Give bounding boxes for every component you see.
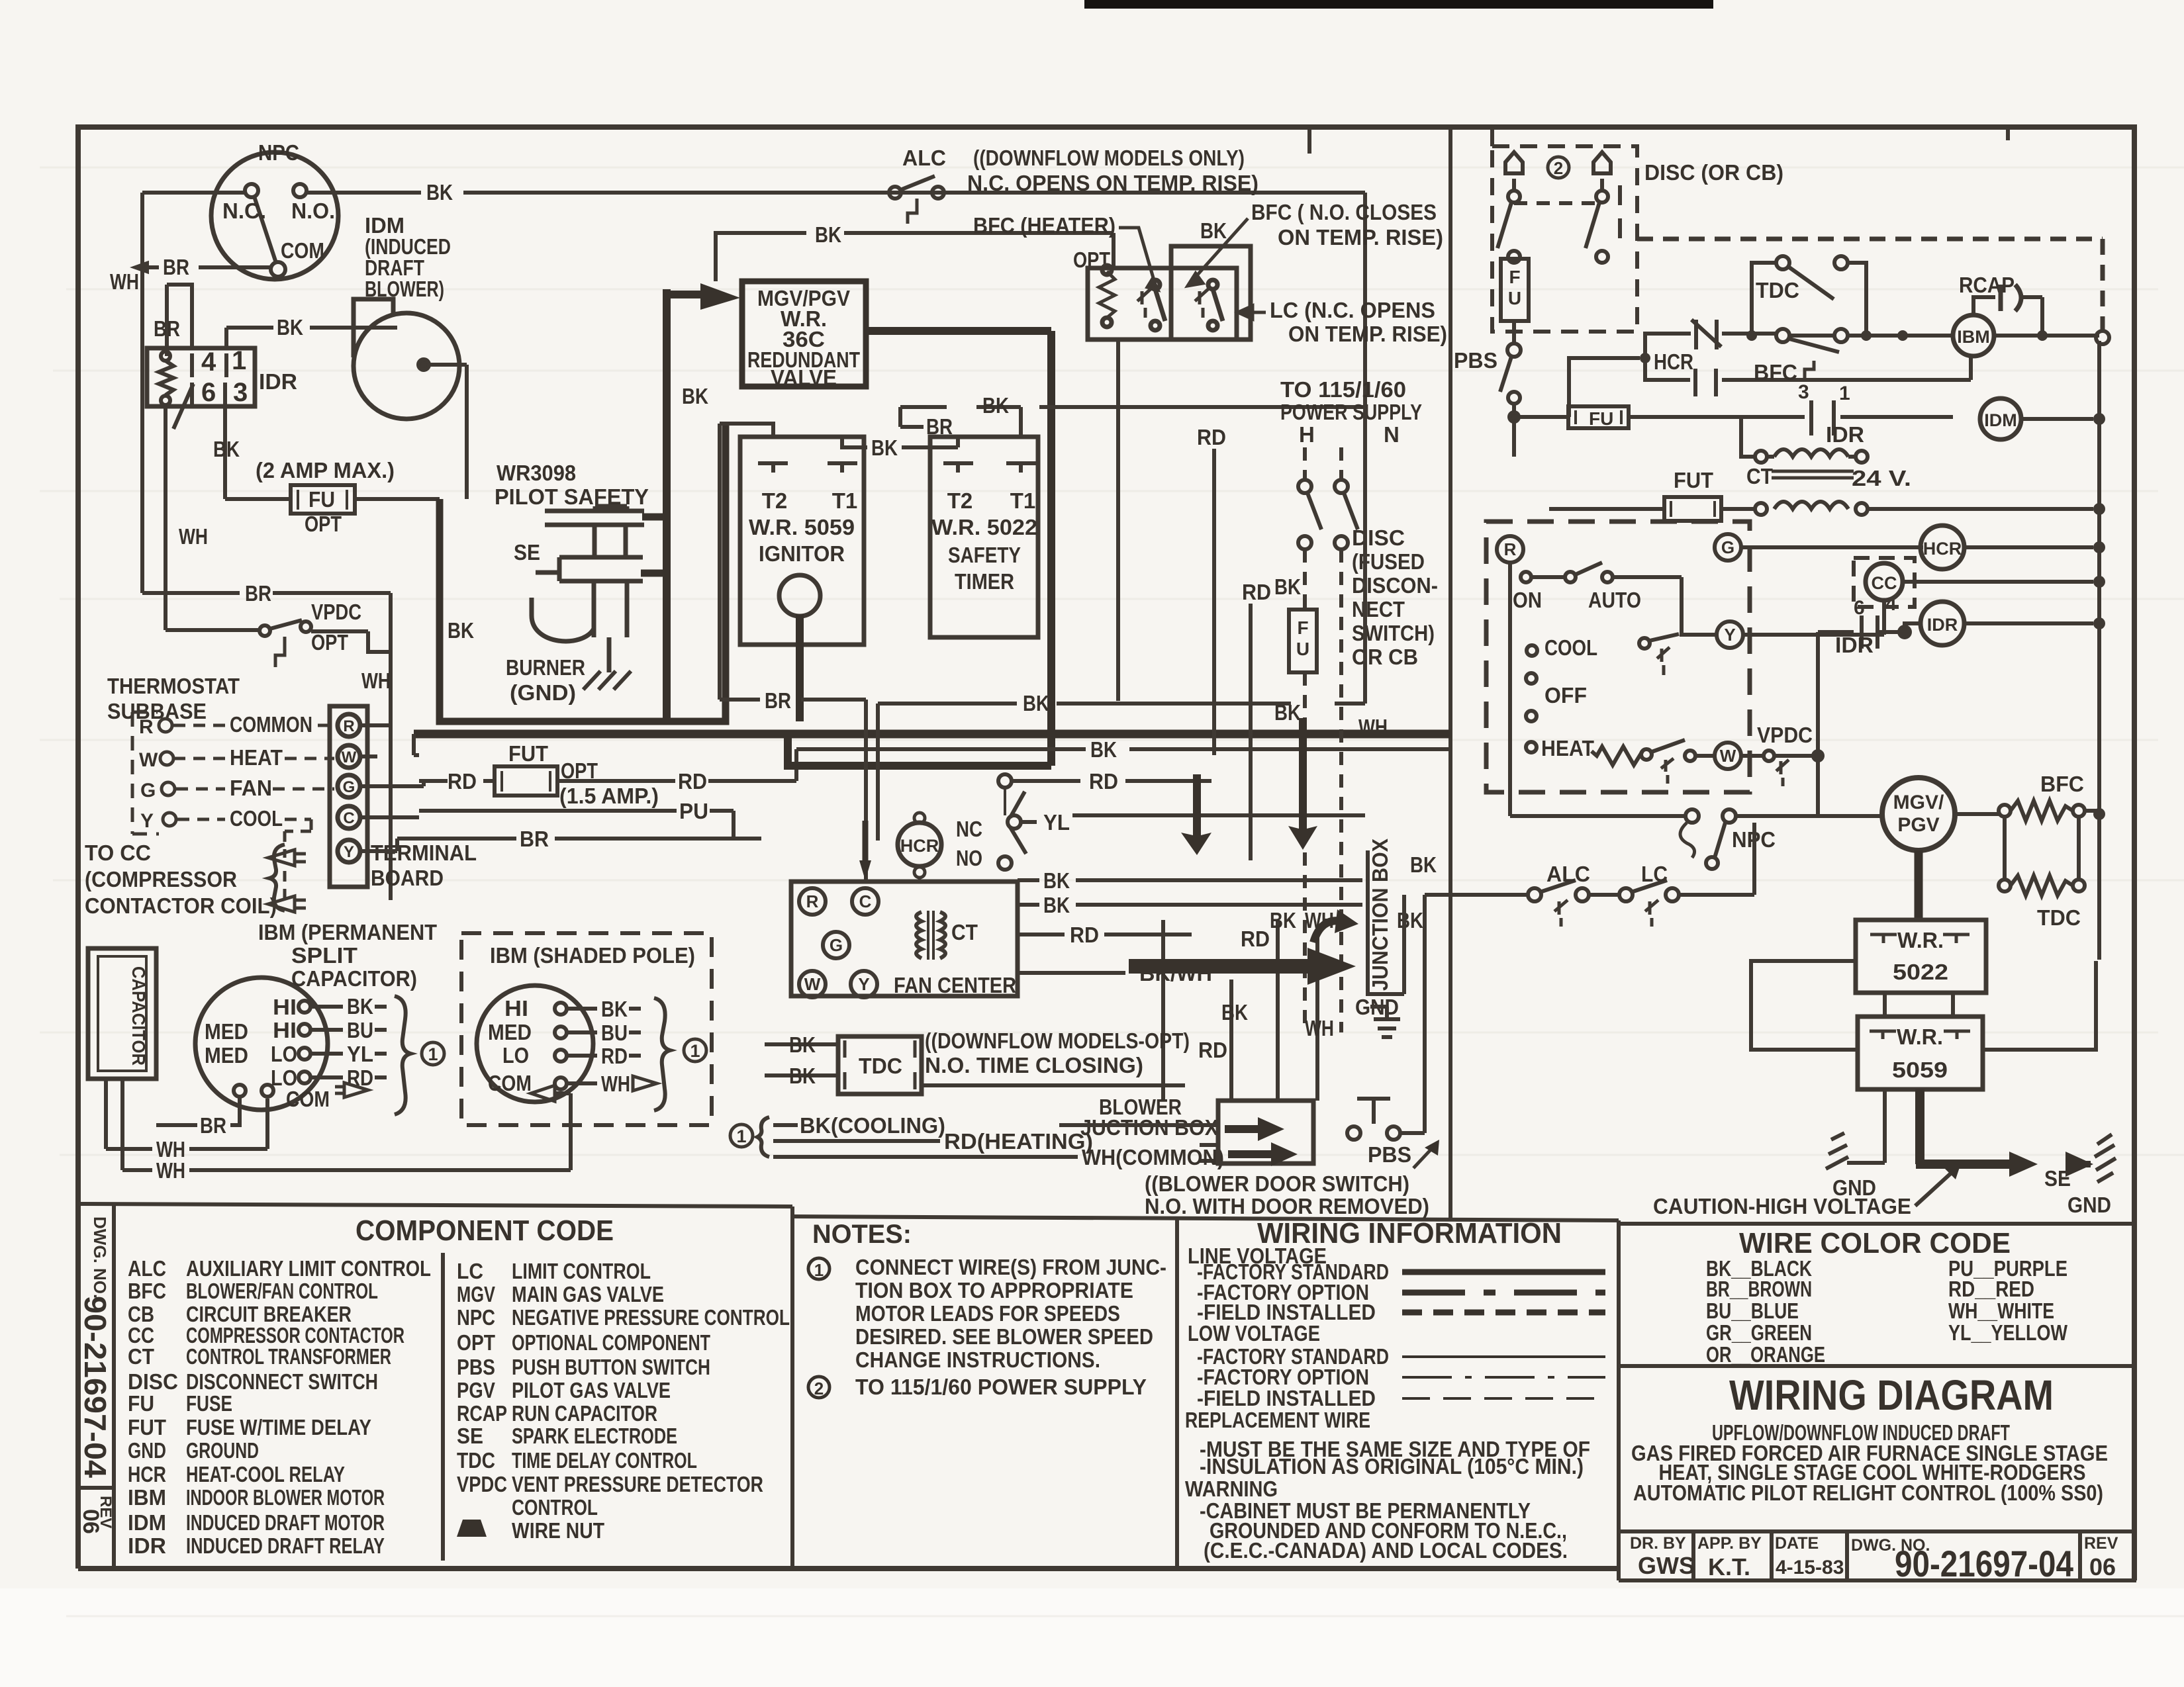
PSC pins and wire stubs [234, 1001, 387, 1097]
curved arrow [1313, 921, 1343, 942]
svg-text:RD__RED: RD__RED [1948, 1277, 2034, 1301]
svg-text:INDOOR BLOWER MOTOR: INDOOR BLOWER MOTOR [186, 1485, 385, 1510]
dashed wire from DISC to right side [1637, 239, 2103, 330]
svg-text:SAFETY: SAFETY [948, 543, 1021, 567]
svg-text:BK: BK [448, 618, 474, 643]
verticals 5022 to 5059 [1885, 993, 1953, 1017]
svg-text:FUT: FUT [508, 741, 548, 766]
pin wires above ignitor/timer [720, 268, 1365, 700]
svg-text:NPC: NPC [258, 140, 299, 165]
svg-text:MAIN GAS VALVE: MAIN GAS VALVE [512, 1282, 664, 1306]
svg-text:BK: BK [1200, 218, 1227, 243]
svg-text:BU__BLUE: BU__BLUE [1706, 1299, 1799, 1323]
svg-text:WIRE COLOR CODE: WIRE COLOR CODE [1739, 1227, 2011, 1259]
svg-text:RCAP: RCAP [457, 1401, 507, 1426]
svg-text:HCR: HCR [900, 836, 939, 856]
big arrow right BK/WH [1129, 948, 1356, 985]
svg-text:PGV: PGV [457, 1378, 495, 1402]
arrows inside junction box [1225, 1117, 1284, 1141]
svg-text:FUSE: FUSE [186, 1391, 232, 1416]
svg-text:C: C [859, 891, 872, 911]
svg-text:DR. BY: DR. BY [1630, 1534, 1686, 1553]
svg-text:1: 1 [232, 346, 246, 375]
svg-text:BFC ( N.O. CLOSES: BFC ( N.O. CLOSES [1251, 200, 1437, 224]
svg-text:WIRING DIAGRAM: WIRING DIAGRAM [1729, 1371, 2054, 1419]
svg-text:OPT: OPT [305, 512, 342, 536]
verticals into junction area [1231, 920, 1317, 1101]
junction dots on right bus [2093, 413, 2105, 820]
svg-text:FAN: FAN [230, 776, 272, 800]
PU row [419, 811, 734, 839]
divider between halves [1448, 127, 1452, 1218]
svg-text:5059: 5059 [1892, 1058, 1948, 1082]
MGV/PGV valve circle [1882, 778, 1955, 850]
svg-text:BK: BK [1274, 574, 1301, 599]
svg-text:U: U [1508, 288, 1521, 308]
thick step y1157 [788, 331, 1051, 766]
svg-text:W: W [804, 974, 821, 994]
svg-text:LIMIT CONTROL: LIMIT CONTROL [512, 1259, 651, 1283]
svg-text:WH(COMMON): WH(COMMON) [1082, 1145, 1224, 1169]
right GND with arrow to SE [2065, 1152, 2093, 1177]
svg-text:HEAT: HEAT [1541, 736, 1594, 760]
title row cell dividers [1691, 1531, 1695, 1580]
svg-text:VALVE: VALVE [771, 365, 837, 390]
svg-text:BR: BR [163, 255, 189, 279]
svg-text:REPLACEMENT WIRE: REPLACEMENT WIRE [1185, 1408, 1370, 1432]
HEAT row [1526, 742, 1537, 752]
svg-text:PU: PU [679, 799, 708, 823]
coil bottom wire down to VPDC row [164, 406, 167, 630]
svg-text:BK: BK [213, 437, 240, 461]
svg-text:PGV: PGV [1897, 814, 1939, 836]
IDR pin ticks [192, 353, 226, 406]
svg-text:WH: WH [1358, 715, 1388, 739]
svg-text:BK: BK [982, 393, 1009, 418]
BK wire row y1063 [878, 404, 1365, 841]
svg-text:BK: BK [347, 994, 373, 1019]
svg-text:CAPACITOR): CAPACITOR) [291, 966, 417, 991]
svg-text:WH: WH [1305, 1016, 1334, 1040]
BFC heater pointer lines [1119, 218, 1266, 319]
svg-text:AUTOMATIC PILOT RELIGHT CONTRO: AUTOMATIC PILOT RELIGHT CONTROL (100% SS… [1633, 1481, 2103, 1505]
note 1 circled number [808, 1258, 830, 1398]
note 1 text [855, 1255, 1166, 1399]
svg-text:CHANGE INSTRUCTIONS.: CHANGE INSTRUCTIONS. [855, 1347, 1100, 1372]
wires BR WH WH from capacitor [106, 1079, 571, 1170]
svg-text:(1.5 AMP.): (1.5 AMP.) [559, 784, 659, 808]
burner enclosure thick U [440, 424, 726, 721]
svg-text:2: 2 [814, 1379, 824, 1398]
big arrow down 2 [1288, 718, 1317, 850]
svg-text:LOW VOLTAGE: LOW VOLTAGE [1188, 1321, 1320, 1345]
svg-text:(GND): (GND) [510, 680, 576, 705]
svg-text:HI: HI [273, 995, 297, 1019]
IDR 6/4 contact [1862, 616, 1921, 649]
VPDC contact right [1741, 632, 1854, 816]
svg-text:LC (N.C. OPENS: LC (N.C. OPENS [1270, 298, 1435, 322]
svg-text:YL: YL [347, 1042, 373, 1066]
svg-text:06: 06 [78, 1509, 103, 1534]
svg-text:MED: MED [205, 1043, 248, 1068]
svg-text:COOL: COOL [230, 806, 283, 831]
svg-text:BLOWER/FAN CONTROL: BLOWER/FAN CONTROL [186, 1279, 378, 1303]
svg-text:FUSE W/TIME DELAY: FUSE W/TIME DELAY [186, 1415, 371, 1439]
component/notes divider [790, 1207, 794, 1569]
svg-text:JUCTION BOX: JUCTION BOX [1080, 1115, 1218, 1140]
svg-text:APP. BY: APP. BY [1697, 1534, 1762, 1553]
thick wire into MGV with arrow [667, 289, 702, 721]
svg-text:F: F [1297, 617, 1308, 638]
svg-text:IBM: IBM [128, 1485, 166, 1510]
svg-text:FU: FU [309, 487, 335, 512]
svg-text:POWER SUPPLY: POWER SUPPLY [1280, 400, 1422, 424]
thin BK wire y1132 [796, 747, 1450, 751]
svg-text:FUT: FUT [1674, 468, 1713, 492]
svg-text:BK: BK [789, 1032, 816, 1057]
ALC LC switches right [1425, 823, 1754, 927]
RD wire from NC [1012, 779, 1211, 783]
TDC switch branch [1752, 263, 1866, 336]
svg-text:5022: 5022 [1893, 960, 1948, 984]
svg-text:PBS: PBS [457, 1355, 495, 1379]
svg-text:F: F [1509, 267, 1520, 287]
svg-text:IGNITOR: IGNITOR [759, 541, 845, 566]
svg-text:N.O.: N.O. [291, 199, 335, 223]
blower junction box rect [1218, 1101, 1313, 1163]
svg-text:HEAT: HEAT [230, 745, 283, 770]
HCR relay circle above fan center [898, 823, 941, 866]
svg-text:1: 1 [814, 1260, 824, 1280]
svg-text:DESIRED. SEE BLOWER SPEED: DESIRED. SEE BLOWER SPEED [855, 1324, 1153, 1349]
svg-text:HCR: HCR [1654, 349, 1693, 374]
svg-text:R: R [139, 716, 154, 738]
svg-text:BU: BU [347, 1018, 373, 1042]
svg-text:T1: T1 [832, 488, 858, 513]
svg-text:90-21697-04: 90-21697-04 [1895, 1543, 2073, 1584]
svg-text:MOTOR LEADS FOR SPEEDS: MOTOR LEADS FOR SPEEDS [855, 1301, 1120, 1326]
svg-text:OFF: OFF [1544, 683, 1587, 707]
svg-text:K.T.: K.T. [1708, 1553, 1750, 1580]
svg-text:TDC: TDC [457, 1448, 495, 1473]
svg-text:LO: LO [502, 1043, 529, 1068]
svg-text:NECT: NECT [1352, 597, 1405, 621]
table band top line [78, 1204, 792, 1207]
svg-text:G: G [830, 935, 843, 955]
sidebar divider [112, 1205, 116, 1569]
svg-text:G: G [1721, 537, 1734, 557]
svg-text:IBM: IBM [1957, 327, 1990, 347]
G row to RD row jog [397, 781, 424, 851]
svg-text:COM: COM [281, 238, 324, 263]
svg-text:2: 2 [1554, 158, 1563, 178]
COOL switch [1527, 645, 1537, 656]
NC NO switch [998, 774, 1026, 870]
svg-text:1: 1 [428, 1044, 438, 1064]
svg-text:LO: LO [271, 1042, 297, 1066]
svg-text:OR CB: OR CB [1352, 645, 1418, 669]
svg-text:BR: BR [245, 581, 271, 606]
svg-text:BU: BU [601, 1021, 628, 1045]
svg-text:CAPACITOR: CAPACITOR [128, 966, 149, 1066]
svg-text:1: 1 [1839, 383, 1850, 404]
svg-text:IDM: IDM [128, 1510, 166, 1535]
IBM motor circle right [1953, 315, 1994, 356]
component table middle divider [441, 1253, 445, 1561]
BFC resistor right [1999, 801, 2099, 821]
svg-text:RD: RD [1241, 927, 1270, 951]
brace for CC arrows [269, 844, 285, 911]
svg-text:IDR: IDR [128, 1533, 166, 1558]
wire loop around 5059 [1751, 961, 2096, 1050]
svg-text:BK: BK [682, 384, 708, 408]
circled 2 DISC [1548, 157, 1569, 178]
svg-text:LC: LC [1641, 862, 1668, 886]
BR row [397, 837, 761, 841]
svg-text:BK: BK [1090, 737, 1117, 762]
ignitor box W.R.5059 [740, 437, 864, 645]
open arrow to CC 2 [268, 896, 306, 912]
thick bus y1109 [414, 730, 1450, 739]
svg-text:G: G [140, 780, 156, 801]
svg-text:SPLIT: SPLIT [291, 943, 357, 968]
svg-text:N.C.: N.C. [222, 199, 266, 223]
svg-text:GWS: GWS [1638, 1552, 1695, 1579]
svg-text:TO 115/1/60 POWER SUPPLY: TO 115/1/60 POWER SUPPLY [855, 1375, 1147, 1399]
top area labels ALC BFC [902, 146, 1447, 346]
BK wire from MGV top to heater resistor [716, 233, 1114, 281]
svg-text:PILOT SAFETY: PILOT SAFETY [495, 484, 649, 509]
svg-text:BLOWER): BLOWER) [365, 277, 444, 301]
svg-text:N.O. WITH DOOR REMOVED): N.O. WITH DOOR REMOVED) [1145, 1194, 1429, 1218]
thermostat subbase labels [85, 674, 477, 918]
right block bottom extension [1619, 1569, 2134, 1580]
IDR pin3 wire down [223, 406, 227, 499]
svg-text:T2: T2 [762, 488, 788, 513]
HCR NC contact [1691, 320, 1721, 349]
svg-text:COMMON: COMMON [230, 712, 312, 737]
svg-text:DISC: DISC [128, 1369, 178, 1394]
arrow down into C of fan center [859, 860, 871, 880]
svg-text:IDR: IDR [259, 369, 297, 394]
svg-text:N: N [1384, 422, 1400, 447]
svg-text:WH: WH [179, 524, 208, 549]
BFC blade on main row [1789, 339, 1839, 352]
OFF [1526, 673, 1537, 684]
R G Y W terminals [1497, 534, 1743, 769]
IDR relay coil [159, 361, 173, 395]
svg-text:BK: BK [1397, 908, 1423, 933]
svg-text:DISC: DISC [1352, 525, 1405, 550]
svg-text:OPT: OPT [457, 1330, 495, 1355]
shaded pole brace [654, 998, 670, 1111]
svg-text:W: W [342, 749, 357, 766]
svg-text:OPTIONAL COMPONENT: OPTIONAL COMPONENT [512, 1330, 710, 1355]
svg-text:BFC: BFC [128, 1279, 166, 1303]
svg-text:BR: BR [200, 1113, 226, 1138]
heater control box [1088, 246, 1251, 340]
svg-text:TDC: TDC [2037, 905, 2081, 930]
TDC resistor right [1999, 817, 2085, 895]
component table left column [128, 1256, 431, 1558]
BK wire y1330 [1018, 878, 1362, 882]
svg-text:4: 4 [201, 347, 216, 377]
IDM blower scroll [354, 313, 459, 419]
svg-text:NO: NO [956, 846, 982, 870]
svg-text:TO CC: TO CC [85, 841, 151, 865]
svg-text:RD: RD [448, 769, 477, 794]
svg-text:BR__BROWN: BR__BROWN [1706, 1277, 1812, 1301]
svg-text:R: R [1504, 539, 1517, 559]
svg-text:CONNECT WIRE(S) FROM JUNC-: CONNECT WIRE(S) FROM JUNC- [855, 1255, 1166, 1279]
svg-text:YL: YL [1043, 810, 1070, 835]
svg-text:BOARD: BOARD [371, 866, 444, 890]
svg-text:HCR: HCR [128, 1462, 166, 1486]
svg-text:BK: BK [1043, 893, 1070, 917]
svg-text:BK(COOLING): BK(COOLING) [800, 1113, 945, 1138]
svg-text:06: 06 [2089, 1553, 2116, 1580]
RD long vertical [1212, 449, 1216, 755]
svg-text:GR__GREEN: GR__GREEN [1706, 1320, 1812, 1345]
wire up from FU row to HCR contact rows [1569, 358, 1640, 417]
FU dashed-line fuse box [1289, 610, 1317, 672]
svg-text:FAN CENTER: FAN CENTER [894, 973, 1016, 997]
svg-text:BK: BK [1410, 852, 1437, 877]
svg-text:DATE: DATE [1775, 1534, 1819, 1553]
svg-text:CT: CT [128, 1344, 154, 1369]
thermostat internal wiring [1510, 547, 1923, 816]
RD wire y1412 [1018, 933, 1192, 936]
svg-text:WARNING: WARNING [1185, 1477, 1278, 1501]
svg-text:BK: BK [277, 315, 303, 340]
svg-text:BR: BR [520, 827, 549, 851]
svg-text:((BLOWER DOOR SWITCH): ((BLOWER DOOR SWITCH) [1145, 1171, 1409, 1196]
svg-text:MED: MED [205, 1019, 248, 1044]
WR5059 box right [1858, 1017, 1983, 1089]
svg-text:N.O. TIME CLOSING): N.O. TIME CLOSING) [925, 1053, 1143, 1077]
svg-text:WH: WH [156, 1158, 185, 1183]
wire BK top from NPC [142, 193, 1365, 268]
svg-text:BK: BK [601, 997, 628, 1021]
svg-text:IBM (SHADED POLE): IBM (SHADED POLE) [490, 943, 695, 968]
safety timer box W.R.5022 [930, 437, 1038, 637]
svg-text:HCR: HCR [1923, 539, 1962, 559]
svg-text:Y: Y [344, 843, 354, 861]
svg-text:TIMER: TIMER [955, 569, 1014, 594]
H/N dashed power lines [1305, 447, 1341, 1032]
svg-text:R: R [806, 891, 819, 911]
wiring info line style samples [1402, 1272, 1605, 1398]
svg-text:COMPONENT CODE: COMPONENT CODE [356, 1214, 614, 1247]
CC compressor contactor [1854, 558, 1915, 607]
svg-text:INDUCED DRAFT MOTOR: INDUCED DRAFT MOTOR [186, 1510, 385, 1535]
IDR relay box [147, 348, 255, 406]
svg-text:C: C [343, 809, 354, 827]
junction node and wires [1509, 256, 1971, 457]
FUT fuse row RD [397, 749, 796, 839]
svg-text:COOL: COOL [1544, 635, 1597, 660]
BR wire row y1057 [720, 700, 866, 880]
CT transformer right [1549, 417, 2093, 582]
svg-text:TIME DELAY CONTROL: TIME DELAY CONTROL [512, 1448, 697, 1473]
wirecolor header divider [1619, 1364, 2134, 1368]
svg-text:ON TEMP. RISE): ON TEMP. RISE) [1278, 225, 1443, 250]
svg-text:ALC: ALC [128, 1256, 166, 1281]
svg-text:VPDC: VPDC [311, 600, 361, 624]
FU fuse vertical right half [1501, 259, 1529, 321]
svg-text:PBS: PBS [1454, 348, 1497, 373]
svg-text:CONTACTOR COIL): CONTACTOR COIL) [85, 893, 277, 918]
IDR pin1 wire up and BK wire to blower [226, 328, 397, 348]
svg-text:BR: BR [154, 316, 180, 341]
circled 1 with brace [730, 1124, 753, 1147]
labels top-left [110, 140, 453, 693]
ground symbol near junction box [1370, 1007, 1400, 1037]
svg-text:G: G [343, 778, 356, 796]
main right vertical bus [2097, 341, 2101, 960]
svg-text:W.R. 5059: W.R. 5059 [749, 515, 855, 539]
svg-text:U: U [1296, 639, 1309, 659]
svg-text:-FIELD INSTALLED: -FIELD INSTALLED [1197, 1386, 1376, 1410]
TO 115/1/60 labels [1280, 377, 1422, 447]
svg-text:GND: GND [2067, 1193, 2111, 1217]
svg-text:GND: GND [128, 1438, 166, 1463]
IDR contact blade [173, 384, 193, 429]
svg-text:(C.E.C.-CANADA) AND LOCAL CODE: (C.E.C.-CANADA) AND LOCAL CODES. [1204, 1538, 1568, 1563]
title row top line [1619, 1529, 2134, 1533]
svg-text:H: H [1299, 422, 1315, 447]
circled 1 PSC [422, 1042, 444, 1065]
NPC pressure control circle [211, 152, 338, 279]
svg-text:BFC: BFC [1754, 360, 1797, 385]
svg-text:RD: RD [1198, 1038, 1227, 1062]
svg-text:BK: BK [1023, 691, 1049, 715]
wire WH left vertical [140, 193, 144, 593]
svg-text:VENT PRESSURE DETECTOR: VENT PRESSURE DETECTOR [512, 1472, 763, 1496]
svg-text:BFC (HEATER): BFC (HEATER) [973, 213, 1116, 238]
HCR relay circle right [1921, 525, 1964, 569]
svg-text:BK: BK [1043, 868, 1070, 893]
svg-text:W: W [1720, 746, 1736, 766]
wire BK y611 continuing right [1039, 405, 1365, 409]
svg-text:N.C. OPENS ON TEMP. RISE): N.C. OPENS ON TEMP. RISE) [967, 171, 1258, 195]
svg-text:RD: RD [1070, 923, 1099, 947]
svg-text:CONTROL: CONTROL [512, 1495, 598, 1520]
svg-text:VPDC: VPDC [1757, 723, 1813, 747]
svg-text:ON: ON [1513, 588, 1542, 612]
svg-text:TDC: TDC [859, 1054, 902, 1078]
scanner black strip top [1084, 0, 1713, 9]
svg-text:VPDC: VPDC [457, 1472, 507, 1496]
svg-text:W.R. 5022: W.R. 5022 [931, 515, 1037, 539]
svg-text:NPC: NPC [457, 1305, 495, 1330]
title row labels [1630, 1534, 2118, 1555]
svg-text:IDR: IDR [1927, 615, 1958, 635]
component table right column [457, 1259, 790, 1543]
svg-text:RD: RD [1197, 425, 1226, 449]
svg-text:BFC: BFC [2040, 772, 2084, 796]
svg-text:((DOWNFLOW MODELS-OPT): ((DOWNFLOW MODELS-OPT) [925, 1028, 1190, 1053]
VPDC switch row [166, 630, 391, 652]
thick wire MGV right to drop [866, 327, 1051, 335]
BK/WH wire y1470 [1018, 971, 1125, 975]
svg-text:TO 115/1/60: TO 115/1/60 [1280, 377, 1406, 402]
svg-text:BK: BK [426, 180, 453, 205]
svg-text:ALC: ALC [1546, 862, 1590, 886]
thermostat dashed box right [1486, 522, 1750, 792]
svg-text:OR__ORANGE: OR__ORANGE [1706, 1342, 1825, 1367]
svg-text:CT: CT [951, 920, 978, 944]
